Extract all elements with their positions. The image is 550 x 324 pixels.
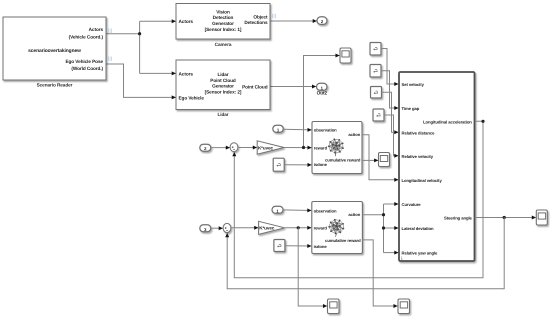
wire: Actors to Camera input [140,20,176,22]
wire: RL2 action to distribution bus [362,214,383,216]
svg-text:Point Cloud: Point Cloud [210,78,236,83]
svg-text:Detection: Detection [213,15,234,20]
svg-text:Actors: Actors [179,71,194,76]
svg-text:observation: observation [314,208,337,213]
inport oval: observation 1 (upper) [273,125,284,132]
big block: controller subsystem [399,72,475,261]
svg-text:(Vehicle Coord.): (Vehicle Coord.) [69,34,104,39]
svg-text:K*uvec: K*uvec [258,145,274,150]
wire: bus to Relative yaw angle [384,252,399,254]
badge: Ego logging [109,57,111,62]
wire: branch vertical Actors [139,21,141,73]
svg-text:Time gap: Time gap [402,106,420,111]
convert C3 [371,87,382,99]
svg-text:Lidar: Lidar [217,112,228,117]
svg-text:Relative distance: Relative distance [402,131,436,136]
wire: Lidar Point Cloud to Out2 [270,86,316,88]
badge: Object Detections logging [273,14,275,18]
svg-text:Lateral deviation: Lateral deviation [402,226,434,231]
convert C5 (isdone upper) [273,158,284,171]
svg-text:Point Cloud: Point Cloud [242,84,268,89]
wire: RL1 action to big block Longitudinal velocity [362,135,398,180]
inport oval: 2 (upper left) [200,144,211,151]
svg-text:reward: reward [314,225,328,230]
svg-text:Detections: Detections [244,20,268,25]
svg-text:[Sensor Index: 2]: [Sensor Index: 2] [205,89,242,94]
wire: bus to Curvature [384,203,399,205]
svg-text:[Sensor Index: 1]: [Sensor Index: 1] [205,27,242,32]
svg-text:isdone: isdone [314,244,328,249]
convert C6 (isdone lower) [274,240,285,252]
block: RL Agent 2 [312,202,363,254]
outport: Out2 [317,83,328,90]
wire: RL1 cumulative reward to scope S2 [362,159,378,161]
svg-text:Scenario Reader: Scenario Reader [37,83,73,88]
svg-text:Generator: Generator [212,84,234,89]
svg-text:reward: reward [314,145,328,150]
svg-text:Longitudinal velocity: Longitudinal velocity [402,178,443,183]
wire: C1 to Set velocity [381,49,398,85]
junction: steering branch [503,216,506,219]
svg-text:Set velocity: Set velocity [402,82,425,87]
convert C4 [373,109,384,121]
NN icon RL1 [328,138,344,156]
svg-text:Relative yaw angle: Relative yaw angle [402,250,439,255]
wire: Steering angle to scope S5 [475,217,536,219]
wire: upper reward branch to scope S1 [304,56,340,148]
wire: observation2 to RL2 [283,209,311,212]
sum S1 circle [230,143,238,152]
wire: Scenario Reader Actors to branch [106,33,140,35]
svg-text:Vision: Vision [216,9,230,14]
svg-text:Actors: Actors [89,27,104,32]
wire: inport2 to sum1 [211,147,230,149]
wire: gain2 to RL2 reward (junction at 297.6) [285,227,312,229]
wire: Longitudinal acceleration feedback to sum1 [234,121,483,277]
convert C2 [370,65,381,78]
wire: Camera Object Detections to Out1 [270,20,317,22]
wire: gain1 to RL1 reward (junction at 303.5) [284,147,311,149]
sum S2 circle [223,223,231,232]
wire: sum1 to gain1 [238,147,257,149]
outport: Out1 top right [317,17,327,25]
wire: C6 to RL2 isdone [285,245,311,247]
inport oval: observation 1 (lower) [272,206,283,213]
scope S1 top [340,48,351,63]
wire: bus to Lateral deviation [384,227,399,229]
wire: C3 to Relative distance [382,92,399,132]
svg-text:Relative velocity: Relative velocity [402,154,434,159]
wire: inport3 to sum2 [211,227,223,229]
svg-text:Actors: Actors [179,19,194,24]
svg-text:Camera: Camera [215,42,232,47]
block: Lidar (Point Cloud Generator) [176,60,270,110]
svg-text:Out2: Out2 [317,91,328,96]
svg-text:↓: ↓ [401,256,404,262]
block: RL Agent 1 [312,122,362,174]
svg-text:(World Coord.): (World Coord.) [71,66,103,71]
wire: Steering feedback to sum2 [227,218,504,289]
svg-text:Ego Vehicle Pose: Ego Vehicle Pose [65,59,103,64]
convert C1 [370,43,381,56]
inport oval: 3 (lower left) [200,225,211,232]
wire: C4 to Relative velocity [384,115,398,156]
scope S3 bottom left [328,299,340,314]
wire: Ego Vehicle Pose to Lidar [106,64,176,97]
scope S4 bottom right [398,299,410,314]
svg-text:Object: Object [253,14,268,19]
wire: sum2 to gain2 [231,227,258,229]
svg-text:Ego Vehicle: Ego Vehicle [179,96,205,101]
NN icon RL2 [328,219,344,237]
svg-text:Longitudinal acceleration: Longitudinal acceleration [423,119,472,124]
svg-text:Generator: Generator [212,21,234,26]
svg-text:scenarioovertakingnew: scenarioovertakingnew [28,48,81,54]
gain G1 K*uvec [257,141,284,154]
gain G2 K*uvec [259,221,285,234]
svg-text:Lidar: Lidar [217,72,228,77]
svg-text:cumulative reward: cumulative reward [325,238,361,243]
badge: Actors logging [109,29,111,34]
junction dots on bus [382,213,385,216]
svg-text:K*uvec: K*uvec [259,226,275,231]
wire: bus vertical [383,204,385,253]
wire: Actors to Lidar input [140,72,176,74]
wire: lower reward branch down to scope S3 [298,228,327,306]
svg-text:action: action [348,212,360,217]
scope S2 [379,153,390,167]
svg-text:cumulative reward: cumulative reward [325,158,361,163]
svg-text:observation: observation [314,128,337,133]
wire: observation1 to RL1 [283,128,311,131]
svg-text:action: action [348,132,360,137]
wire: C5 to RL1 isdone [284,164,311,166]
svg-text:isdone: isdone [314,162,328,167]
wire: C2 to Time gap [381,71,398,108]
scope S5 right [536,210,547,225]
wire: RL2 cumulative reward to scope S4 [362,240,397,306]
block: Camera (Vision Detection Generator) [176,4,270,40]
block: Scenario Reader [3,17,106,80]
svg-text:Curvature: Curvature [402,202,422,207]
svg-text:Steering angle: Steering angle [444,216,472,221]
junction: Actors branch [138,32,141,35]
